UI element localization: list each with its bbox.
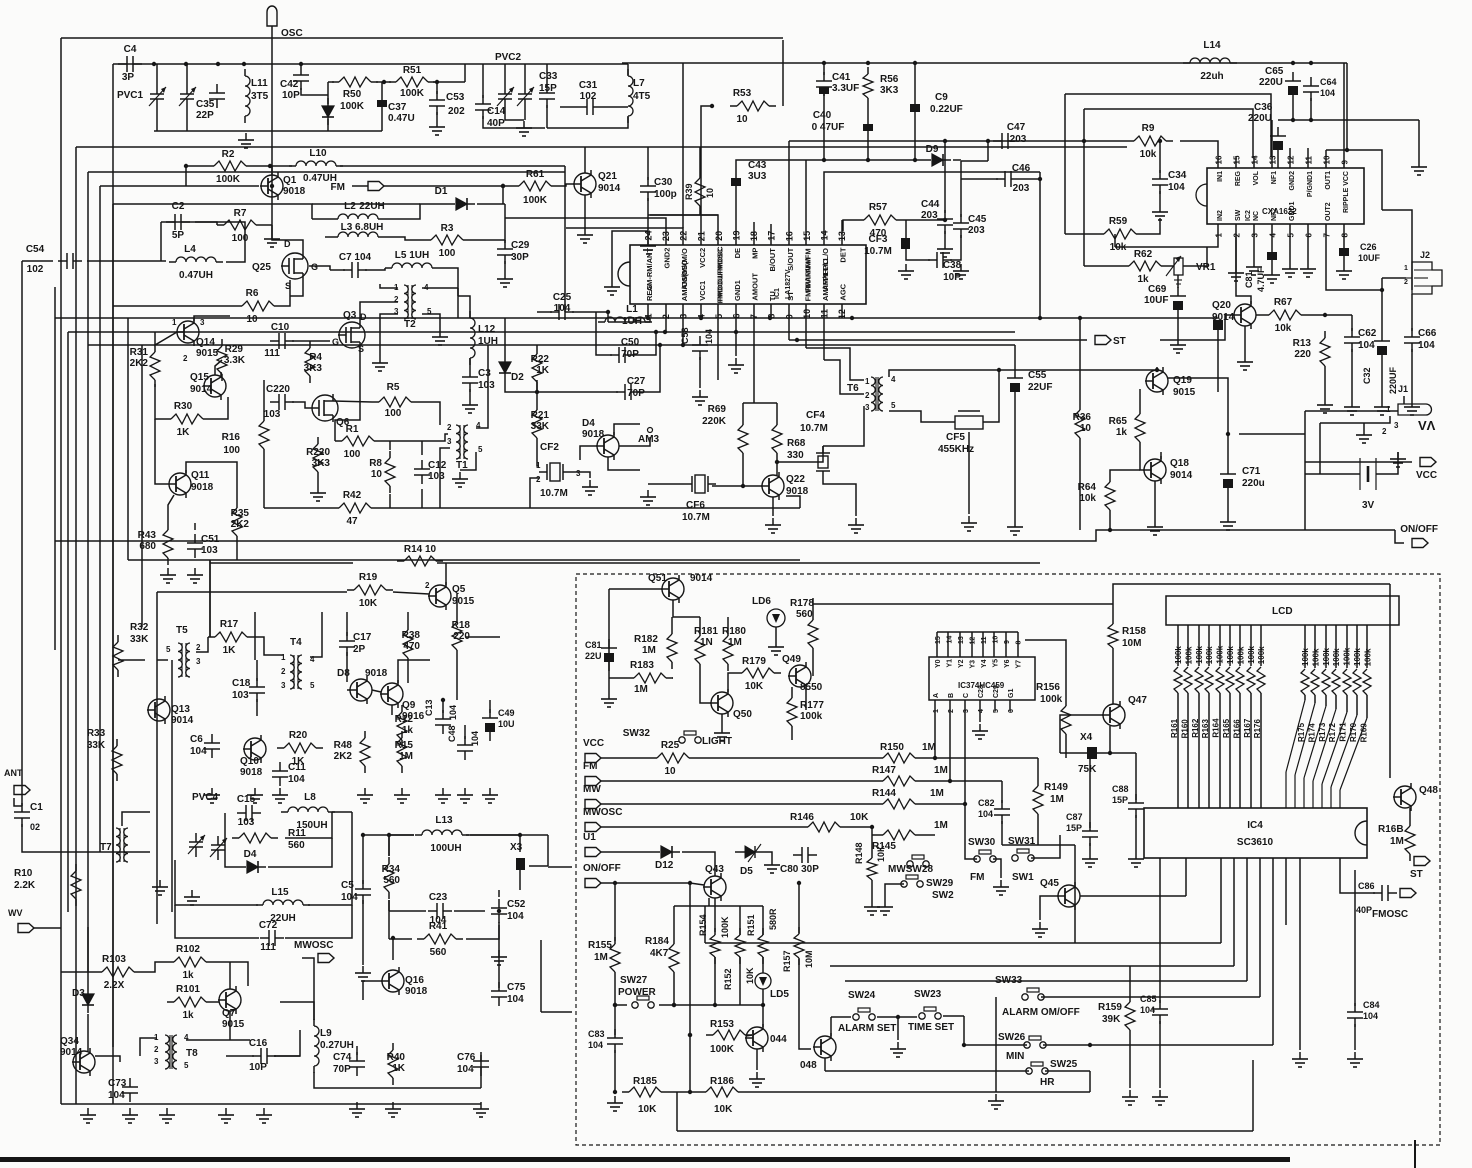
- wire pin13 riser: [841, 220, 843, 231]
- ground under C83: [607, 1096, 623, 1111]
- svg-text:Y7: Y7: [1016, 660, 1023, 669]
- wire sw26 right: [1043, 1044, 1273, 1046]
- capacitor C86: [1373, 885, 1397, 901]
- wire d4 left: [225, 838, 238, 867]
- ground ic2 g p8: [1336, 264, 1352, 279]
- label R146: [790, 812, 869, 823]
- transistor Q43: [703, 864, 726, 901]
- svg-text:Q25: Q25: [252, 262, 271, 273]
- capacitor C14: [475, 95, 506, 129]
- junction fm-d1 j: [501, 184, 505, 188]
- svg-text:1k: 1k: [182, 970, 194, 981]
- wire c76 top2: [480, 1055, 482, 1088]
- wire x988 col: [987, 141, 989, 161]
- wire R177 top: [791, 687, 793, 691]
- dashed enclosure digital section: [576, 574, 1440, 1145]
- transistor Q47: [1102, 695, 1147, 729]
- wire pin10 loop: [1326, 150, 1382, 210]
- capacitor C23: [428, 892, 452, 926]
- svg-text:IC2: IC2: [1245, 210, 1252, 221]
- wire c66 dn: [1411, 349, 1413, 400]
- wire IC1 pin6 drop: [735, 318, 737, 332]
- transistor Q3: [338, 310, 365, 349]
- wire c52 up: [498, 890, 500, 897]
- svg-text:C23: C23: [429, 892, 448, 903]
- svg-text:75K: 75K: [1078, 764, 1097, 775]
- wire IC3 top rail: [937, 631, 1018, 633]
- wire R159 bot: [1129, 1037, 1131, 1088]
- svg-text:FM/IFAM/FM: FM/IFAM/FM: [803, 258, 812, 302]
- junction d18: [1155, 368, 1159, 372]
- wire Q48 em: [1409, 808, 1411, 819]
- svg-text:R6: R6: [246, 288, 259, 299]
- wire R22 bot: [536, 389, 538, 392]
- inductor L9: [314, 1019, 354, 1073]
- svg-text:C16: C16: [249, 1038, 268, 1049]
- ground under C69: [1170, 338, 1186, 353]
- junction d8: [1038, 316, 1042, 320]
- ground g L9 area: [218, 1108, 234, 1123]
- wire R182 top: [671, 617, 673, 627]
- wire IC1 pin12 drop: [841, 317, 843, 319]
- T1 pins: [447, 421, 483, 454]
- svg-text:15P: 15P: [1066, 823, 1082, 833]
- wire q20 em dn: [1244, 326, 1246, 355]
- svg-text:104: 104: [470, 731, 480, 746]
- svg-text:R64: R64: [1078, 482, 1097, 493]
- svg-text:C13: C13: [424, 699, 434, 716]
- resistor R15: [395, 731, 414, 773]
- label R185: [633, 1076, 657, 1115]
- capacitor C2: [166, 201, 190, 241]
- wire D1 right: [477, 203, 503, 205]
- wire IC1 pin9 drop: [788, 318, 790, 340]
- transistor Q21: [573, 170, 621, 198]
- capacitor C47: [993, 122, 1027, 149]
- IC1 pin 4 bottom: [696, 281, 707, 320]
- ground under IC3: [972, 724, 988, 739]
- svg-text:ST: ST: [1410, 869, 1423, 880]
- IC1 pin 23 top: [661, 231, 672, 268]
- wire J1 line2: [1320, 416, 1390, 423]
- svg-text:R1: R1: [346, 424, 359, 435]
- transistor Q16: [381, 967, 428, 997]
- svg-text:R166: R166: [1232, 719, 1241, 739]
- wire X3 stub: [529, 865, 548, 867]
- svg-text:10.7M: 10.7M: [800, 423, 828, 434]
- junction onoff j: [613, 881, 617, 885]
- ground under J1: [1356, 428, 1372, 443]
- transistor Q10: [240, 735, 266, 778]
- svg-text:3: 3: [447, 437, 452, 446]
- crystal CF2: [539, 442, 571, 499]
- transistor Q49: [782, 654, 823, 693]
- wire IC2 p1 stub: [1115, 237, 1218, 247]
- junction j1005a: [672, 1003, 676, 1007]
- inductor L12: [470, 311, 498, 365]
- CF2 pins: [536, 461, 581, 484]
- wire R21 top: [536, 380, 538, 403]
- svg-text:B: B: [948, 693, 955, 698]
- wire r101-q7: [213, 1001, 219, 1003]
- svg-text:R174: R174: [1307, 723, 1316, 743]
- svg-text:3U3: 3U3: [748, 171, 767, 182]
- label SW26: [998, 1032, 1026, 1062]
- wire Q3 drain: [360, 302, 398, 321]
- wire osc tank top rail: [113, 63, 300, 65]
- svg-text:10: 10: [736, 114, 748, 125]
- wire pvc2b stem: [524, 64, 526, 85]
- wire R30 left: [155, 384, 164, 419]
- IC1 pin 8 bottom: [767, 291, 778, 319]
- switch SW32: [679, 731, 701, 743]
- switch SW30: [974, 850, 996, 862]
- resistor R181: [695, 629, 705, 671]
- wire pvc1a stem: [156, 64, 158, 85]
- wire CF3 top: [905, 220, 907, 238]
- svg-text:104: 104: [1363, 1011, 1378, 1021]
- svg-text:202: 202: [448, 106, 465, 117]
- wire IC1 pin4 drop: [700, 317, 702, 319]
- transistor Q6: [311, 394, 350, 428]
- wire q16 cluster: [392, 938, 394, 960]
- resistor R166: [1232, 625, 1245, 808]
- wire x328 col: [327, 82, 329, 104]
- wire C58 gnd stub: [699, 357, 701, 388]
- wire C27 left wire: [537, 391, 618, 393]
- svg-text:330: 330: [787, 450, 804, 461]
- wire C46 left: [961, 178, 998, 180]
- svg-text:R151: R151: [746, 914, 756, 936]
- wire l15 left: [175, 860, 258, 905]
- junction c36 ja: [1291, 118, 1295, 122]
- svg-text:Q34: Q34: [60, 1036, 79, 1047]
- wire R145 left: [872, 834, 876, 836]
- label PVC2: [495, 52, 522, 63]
- svg-text:R48: R48: [334, 740, 353, 751]
- resistor R25: [650, 740, 696, 777]
- wire C9 col: [914, 63, 916, 104]
- label C58: [680, 327, 714, 344]
- capacitor C61: [1244, 252, 1277, 292]
- wire IC2 p3 stub: [1253, 237, 1255, 260]
- svg-text:C27: C27: [627, 376, 646, 387]
- resistor R163: [1201, 625, 1214, 808]
- wire C30 up: [647, 147, 649, 180]
- svg-text:R38: R38: [402, 630, 421, 641]
- label Q51: [648, 573, 713, 584]
- wire IC3 top stub 3: [971, 632, 973, 646]
- svg-text:15P: 15P: [539, 83, 557, 94]
- label Q44: [770, 1034, 787, 1045]
- wire Q5 collector: [445, 563, 447, 585]
- svg-text:104: 104: [190, 746, 207, 757]
- svg-text:VCC: VCC: [1416, 470, 1437, 481]
- svg-text:VOL: VOL: [1253, 170, 1260, 185]
- svg-text:33K: 33K: [130, 634, 149, 645]
- svg-text:L12: L12: [478, 324, 496, 335]
- wire rail y172: [88, 171, 565, 173]
- svg-text:R69: R69: [708, 404, 727, 415]
- svg-text:2: 2: [536, 475, 541, 484]
- IC2 pin 6 bottom: [1305, 224, 1314, 238]
- wire rail y560 left: [128, 559, 210, 561]
- wire l15 right: [308, 812, 352, 905]
- label R158: [1122, 626, 1146, 649]
- ground under Q22: [765, 518, 781, 533]
- svg-text:Q10: Q10: [240, 756, 259, 767]
- svg-text:L7: L7: [633, 78, 645, 89]
- wire mid join: [209, 560, 211, 637]
- wire x255 col: [254, 612, 256, 660]
- svg-text:103: 103: [238, 817, 255, 828]
- wire C53 gnd: [436, 112, 438, 120]
- svg-text:Y1: Y1: [947, 659, 954, 668]
- svg-text:5: 5: [310, 681, 315, 690]
- svg-text:02: 02: [30, 822, 40, 832]
- ground g C74: [349, 1102, 365, 1117]
- capacitor C25: [550, 292, 574, 320]
- wire C220-Q6: [292, 402, 311, 408]
- svg-text:4K7: 4K7: [650, 948, 669, 959]
- wire l13 right: [470, 835, 520, 852]
- wire row966: [830, 965, 1234, 967]
- junction c71 j: [1226, 432, 1230, 436]
- svg-text:D8: D8: [337, 668, 350, 679]
- capacitor C80: [793, 847, 817, 863]
- resistor R21: [531, 403, 550, 445]
- ground under batt: [1390, 452, 1406, 467]
- wire r34-l13: [389, 835, 414, 856]
- IC1 pin 18 top: [749, 231, 760, 259]
- capacitor C62: [1344, 328, 1377, 352]
- junction tank j1: [152, 62, 156, 66]
- svg-text:C42: C42: [280, 79, 299, 90]
- IC1 pin 24 top: [644, 230, 655, 291]
- connector J2: [1412, 250, 1442, 294]
- svg-text:RIPPLE VCC: RIPPLE VCC: [1343, 171, 1350, 213]
- resistor R150: [876, 753, 922, 763]
- wire vcc row b: [696, 757, 876, 759]
- svg-text:R56: R56: [880, 74, 899, 85]
- wire C33 low: [546, 105, 548, 128]
- wire pin22 riser: [682, 63, 684, 228]
- ground under Q44: [749, 1072, 765, 1087]
- label R145: [872, 820, 948, 852]
- wire IC2 p5 stub: [1289, 237, 1291, 262]
- svg-text:Q21: Q21: [598, 171, 617, 182]
- label PVC1: [117, 90, 144, 101]
- junction d31: [441, 698, 445, 702]
- resistor R65: [1109, 407, 1145, 449]
- wire LD5 top: [762, 957, 764, 973]
- svg-text:4.7UF: 4.7UF: [1256, 267, 1266, 292]
- wire u1 row b: [682, 852, 715, 876]
- svg-text:IN1: IN1: [1217, 171, 1224, 182]
- svg-text:220UF: 220UF: [1388, 366, 1398, 394]
- resistor R176: [1253, 625, 1266, 808]
- svg-text:10P: 10P: [943, 272, 961, 283]
- wire x615 col c: [614, 1050, 616, 1092]
- svg-text:AM/OS(M/O: AM/OS(M/O: [680, 260, 689, 301]
- wire T5 p5 wire: [157, 659, 168, 661]
- resistor R12: [395, 705, 414, 747]
- ground right gnd col g: [1292, 1052, 1308, 1067]
- svg-text:R164: R164: [1212, 718, 1221, 738]
- wire x499 col: [498, 922, 500, 988]
- wire IC1 pin8 drop: [770, 317, 772, 319]
- label MWOSC bl: [294, 940, 333, 951]
- svg-text:C74: C74: [333, 1052, 352, 1063]
- inductor L11: [245, 69, 269, 123]
- svg-text:C55: C55: [1028, 370, 1047, 381]
- svg-text:GND1: GND1: [733, 280, 742, 301]
- wire Q25 drain: [272, 225, 303, 252]
- capacitor C52: [491, 899, 526, 923]
- ground under C87: [1082, 852, 1098, 867]
- ground IC1 gnd1 pin6: [728, 358, 744, 373]
- IC2 pin 2 bottom: [1233, 209, 1243, 237]
- wire C25 wires: [537, 311, 552, 313]
- AM3 dot: [648, 428, 653, 433]
- wire C41 col: [823, 63, 825, 75]
- svg-text:Q48: Q48: [1419, 785, 1438, 796]
- wire L1 row: [608, 321, 650, 323]
- wire Q15 links: [215, 360, 222, 375]
- wire R181 top: [699, 617, 701, 629]
- wire sw29 wire: [885, 884, 904, 900]
- svg-text:VCC: VCC: [583, 738, 604, 749]
- svg-text:R182: R182: [634, 634, 658, 645]
- junction x690 jc: [688, 1090, 692, 1094]
- wire colB: [949, 711, 951, 781]
- junction tank j5: [299, 62, 303, 66]
- svg-text:R180: R180: [722, 626, 746, 637]
- wire C88 col: [1135, 753, 1137, 800]
- svg-text:4: 4: [978, 709, 985, 713]
- wire fm row b: [922, 780, 1002, 782]
- capacitor C66: [1404, 328, 1437, 352]
- wire R148 top: [871, 827, 873, 851]
- label R184: [645, 936, 669, 959]
- label C64: [1320, 77, 1337, 98]
- svg-text:9018: 9018: [365, 668, 388, 679]
- svg-text:C69: C69: [1148, 284, 1167, 295]
- svg-text:2: 2: [196, 643, 201, 652]
- transistor Q51: [661, 575, 684, 603]
- ground q cluster 1: [160, 568, 176, 583]
- capacitor C81: [601, 639, 617, 671]
- svg-text:C44: C44: [921, 199, 940, 210]
- resistor R39: [695, 171, 705, 213]
- svg-text:C26: C26: [1360, 242, 1377, 252]
- inductor L13: [415, 815, 469, 854]
- svg-text:R148: R148: [854, 842, 864, 864]
- capacitor C58: [692, 336, 708, 360]
- junction d6: [768, 316, 772, 320]
- svg-text:R145: R145: [872, 841, 896, 852]
- ground under sw33 col: [988, 1094, 1004, 1109]
- wire Q22 em: [772, 497, 774, 516]
- capacitor C85: [1152, 1000, 1168, 1024]
- svg-text:100k: 100k: [1257, 646, 1266, 664]
- wire R62 left: [1084, 265, 1122, 267]
- capacitor C53: [429, 91, 465, 117]
- svg-text:X3: X3: [510, 842, 523, 853]
- svg-text:R101: R101: [176, 984, 200, 995]
- wire R220 gnd stub: [317, 479, 319, 486]
- wire C25 right: [572, 311, 608, 313]
- transistor Q8: [337, 668, 388, 704]
- svg-text:SW1: SW1: [1012, 872, 1034, 883]
- wire sw33 up: [1259, 858, 1261, 997]
- wire batt to j1: [1319, 423, 1321, 474]
- resistor R20: [277, 730, 323, 767]
- label Q25 D: [284, 239, 291, 249]
- svg-text:22: 22: [679, 231, 689, 241]
- IC1 pin 6 bottom: [732, 280, 743, 318]
- wire onoff long rail: [55, 530, 1110, 541]
- wire c66 up: [1411, 294, 1413, 331]
- resistor R2: [207, 149, 253, 185]
- label SW23: [908, 989, 954, 1033]
- transistor Q14: [176, 318, 219, 359]
- svg-text:C58: C58: [680, 327, 690, 344]
- transistor Q34: [60, 1036, 95, 1076]
- svg-text:5: 5: [993, 709, 1000, 713]
- wire c34 up: [1159, 141, 1161, 173]
- wire pin9 stub2: [1343, 63, 1345, 156]
- resistor R154: [710, 928, 720, 964]
- label PVC4: [192, 792, 219, 803]
- variable capacitor PVC1b: [179, 85, 196, 109]
- wire R56-C40: [867, 105, 869, 124]
- wire T2 sec bot: [422, 314, 440, 330]
- junction sw27 j: [613, 1003, 617, 1007]
- wire R157 top: [798, 883, 800, 933]
- wire C84 bot: [1354, 1024, 1356, 1050]
- wire IC3 top stub 5: [993, 632, 995, 646]
- svg-text:OUT1: OUT1: [1325, 171, 1332, 190]
- resistor R183: [627, 673, 673, 683]
- resistor R11: [232, 833, 278, 843]
- label C85: [1140, 994, 1157, 1015]
- wire T5 p2 wire: [196, 637, 208, 652]
- svg-text:0.47U: 0.47U: [388, 113, 415, 124]
- wire R184 bot: [673, 979, 675, 1005]
- svg-text:1k: 1k: [182, 1010, 194, 1021]
- resistor R157: [794, 927, 804, 965]
- svg-text:100: 100: [344, 449, 361, 460]
- wire Q47 base: [1060, 715, 1103, 753]
- wire R19 row: [157, 591, 347, 593]
- resistor R36: [1073, 403, 1092, 445]
- svg-text:DE: DE: [733, 248, 742, 258]
- svg-text:R59: R59: [1109, 216, 1128, 227]
- svg-text:1: 1: [1404, 265, 1408, 272]
- ground g T8: [159, 1108, 175, 1123]
- svg-text:100k: 100k: [1226, 646, 1235, 664]
- svg-text:14: 14: [1251, 155, 1260, 164]
- wire R34 col bot: [388, 900, 390, 939]
- junction c53 j: [435, 80, 439, 84]
- wire c23 row: [389, 910, 426, 912]
- svg-text:R160: R160: [1180, 719, 1189, 739]
- label R182: [634, 634, 658, 656]
- IC1 pin 17 top: [767, 231, 778, 272]
- resistor R4: [304, 341, 323, 383]
- IC1 pin 2 bottom: [661, 304, 671, 319]
